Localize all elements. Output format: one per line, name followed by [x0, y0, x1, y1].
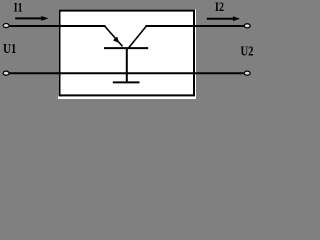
svg-text:U2: U2	[241, 45, 254, 60]
node: input top terminal	[3, 24, 9, 28]
two-port network box border	[60, 11, 195, 96]
node: input bottom terminal	[3, 71, 9, 75]
current arrow I2	[207, 16, 240, 21]
label U2	[241, 45, 254, 60]
node: output top terminal	[244, 24, 250, 28]
transistor Q1: emitter lead with arrow (PNP, pointing to base bar)	[105, 27, 123, 47]
background panel	[0, 0, 266, 99]
label I2	[215, 0, 224, 14]
wire: output top (collector corner to right terminal)	[146, 25, 247, 27]
label U1	[3, 42, 16, 57]
two-port network box (white body)	[58, 10, 196, 100]
current arrow I1	[15, 16, 48, 21]
label I1	[14, 0, 23, 14]
transistor Q1: collector lead	[129, 27, 146, 48]
transistor Q1: base connection crossbar	[113, 81, 140, 83]
svg-text:I1: I1	[14, 0, 23, 14]
transistor Q1: base bar	[104, 47, 148, 49]
wire: input top (left terminal to emitter corner)	[7, 25, 106, 27]
svg-text:U1: U1	[3, 42, 16, 57]
transistor Q1: base lead down	[126, 48, 128, 82]
node: output bottom terminal	[244, 71, 250, 75]
svg-text:I2: I2	[215, 0, 224, 14]
wire: common bottom rail	[7, 72, 246, 74]
